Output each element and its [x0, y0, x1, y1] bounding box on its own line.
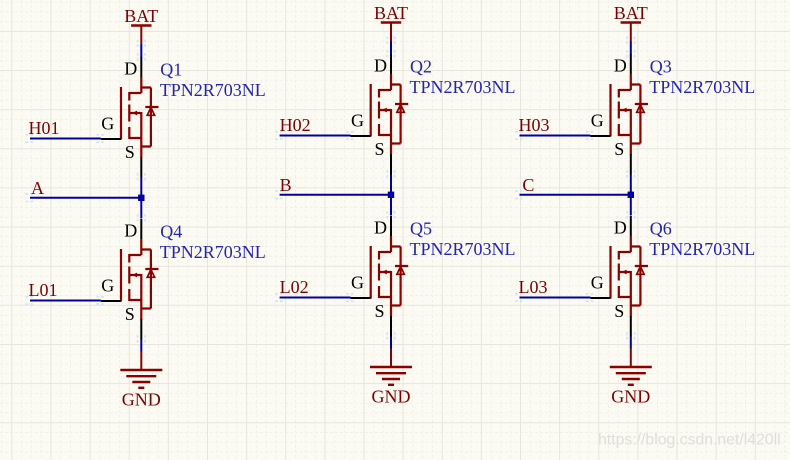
svg-text:S: S — [125, 304, 135, 324]
svg-text:H01: H01 — [29, 118, 60, 138]
svg-text:Q5: Q5 — [410, 219, 432, 239]
wire H03 to G of Q3 — [520, 135, 591, 137]
wire S of Q5 to GND — [390, 337, 392, 349]
power port BAT (column 1) — [131, 26, 151, 45]
svg-text:S: S — [374, 301, 384, 321]
wire phase node A stub — [30, 197, 141, 199]
wire S of Q4 to GND — [140, 340, 142, 352]
svg-text:L02: L02 — [280, 277, 309, 297]
svg-text:BAT: BAT — [124, 6, 158, 26]
svg-text:TPN2R703NL: TPN2R703NL — [410, 77, 516, 97]
svg-text:Q1: Q1 — [160, 60, 182, 80]
svg-text:D: D — [124, 221, 137, 241]
svg-text:B: B — [280, 175, 292, 195]
svg-text:Q3: Q3 — [650, 57, 672, 77]
svg-text:D: D — [374, 56, 387, 76]
svg-text:TPN2R703NL: TPN2R703NL — [160, 80, 266, 100]
wire L03 to G of Q6 — [520, 297, 591, 299]
wire S of Q1 to D of Q4 (phase node A) — [140, 178, 142, 219]
transistor Q1 TPN2R703NL (high side) — [101, 57, 266, 178]
svg-text:C: C — [522, 175, 534, 195]
svg-text:https://blog.csdn.net/l420ll: https://blog.csdn.net/l420ll — [598, 432, 781, 449]
wire S of Q2 to D of Q5 (phase node B) — [390, 175, 392, 216]
wire S of Q3 to D of Q6 (phase node C) — [630, 175, 632, 216]
wire phase node C stub — [520, 194, 631, 196]
svg-text:D: D — [614, 56, 627, 76]
svg-text:TPN2R703NL: TPN2R703NL — [410, 239, 516, 259]
svg-text:G: G — [351, 111, 364, 131]
svg-text:G: G — [101, 114, 114, 134]
svg-text:G: G — [351, 273, 364, 293]
junction B — [388, 192, 394, 198]
svg-text:H03: H03 — [519, 115, 550, 135]
wire BAT to D of Q1 — [140, 44, 142, 58]
wire L01 to G of Q4 — [30, 300, 101, 302]
svg-text:L03: L03 — [519, 277, 548, 297]
svg-text:BAT: BAT — [614, 3, 648, 23]
svg-text:S: S — [614, 301, 624, 321]
svg-text:GND: GND — [122, 390, 161, 410]
ground GND (column 2) — [370, 349, 412, 385]
svg-text:G: G — [591, 273, 604, 293]
svg-text:Q6: Q6 — [650, 219, 672, 239]
wire H02 to G of Q2 — [280, 135, 351, 137]
svg-text:Q2: Q2 — [410, 57, 432, 77]
ground GND (column 3) — [610, 349, 652, 385]
svg-text:G: G — [101, 276, 114, 296]
transistor Q2 TPN2R703NL (high side) — [351, 54, 516, 175]
svg-text:S: S — [125, 142, 135, 162]
svg-text:GND: GND — [611, 387, 650, 407]
power port BAT (column 2) — [381, 23, 401, 42]
transistor Q3 TPN2R703NL (high side) — [590, 54, 755, 175]
wire L02 to G of Q5 — [280, 297, 351, 299]
svg-text:BAT: BAT — [374, 3, 408, 23]
svg-text:G: G — [591, 111, 604, 131]
svg-text:TPN2R703NL: TPN2R703NL — [649, 77, 755, 97]
ground GND (column 1) — [120, 352, 162, 388]
svg-text:TPN2R703NL: TPN2R703NL — [649, 239, 755, 259]
svg-text:GND: GND — [372, 387, 411, 407]
wire H01 to G of Q1 — [30, 138, 101, 140]
junction A — [138, 195, 144, 201]
wire BAT to D of Q2 — [390, 41, 392, 55]
power port BAT (column 3) — [621, 23, 641, 42]
junction C — [628, 192, 634, 198]
svg-text:D: D — [124, 59, 137, 79]
wire BAT to D of Q3 — [630, 41, 632, 55]
svg-text:L01: L01 — [29, 280, 58, 300]
svg-text:D: D — [374, 218, 387, 238]
transistor Q4 TPN2R703NL (low side) — [101, 219, 266, 340]
wire S of Q6 to GND — [630, 337, 632, 349]
wire phase node B stub — [280, 194, 391, 196]
svg-text:Q4: Q4 — [160, 222, 182, 242]
svg-text:A: A — [31, 178, 44, 198]
transistor Q5 TPN2R703NL (low side) — [351, 216, 516, 337]
svg-text:S: S — [614, 139, 624, 159]
svg-text:S: S — [374, 139, 384, 159]
svg-text:H02: H02 — [280, 115, 311, 135]
svg-text:D: D — [614, 218, 627, 238]
svg-text:TPN2R703NL: TPN2R703NL — [160, 242, 266, 262]
transistor Q6 TPN2R703NL (low side) — [590, 216, 755, 337]
